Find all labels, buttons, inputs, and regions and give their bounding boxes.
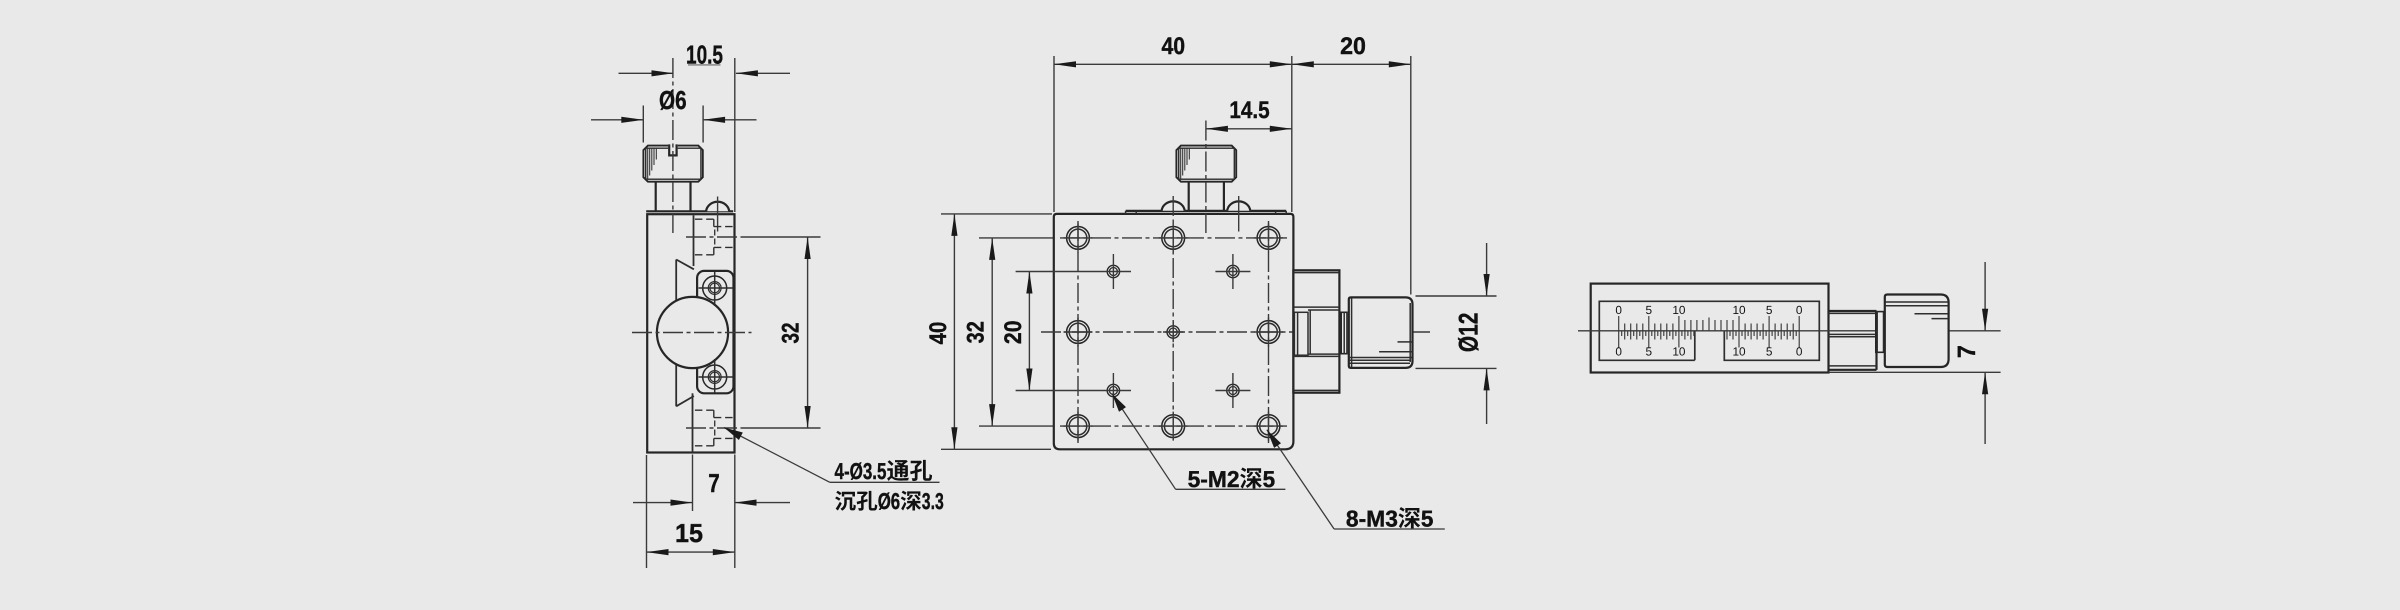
horizontal centerline left view [632,332,752,334]
micrometer collar [1341,312,1347,353]
bracket screw bottom [703,365,727,389]
8x M3 holes [1067,227,1090,250]
mount screw domes [1162,201,1185,210]
top knob stem [1188,182,1190,211]
svg-text:4-Ø3.5: 4-Ø3.5 [835,458,887,484]
svg-text:20: 20 [1340,33,1366,60]
leader 5-M2 [1112,394,1176,490]
dim 40 horizontal [1054,63,1292,65]
dim 32 left [686,236,741,238]
front body [1591,284,1829,373]
main plate 40x40 [1054,214,1294,449]
right view: front elevation with vernier scale [1591,284,1829,373]
svg-text:7: 7 [708,468,720,498]
stage boundary edge [693,215,695,266]
micrometer bracket block [1293,270,1339,392]
middle view: top plan of stage [1054,121,1294,450]
svg-text:10: 10 [1672,303,1686,317]
svg-text:0: 0 [1796,344,1803,358]
micrometer bracket front [1875,311,1877,370]
flexure spring top [676,260,694,270]
svg-text:5: 5 [1421,506,1434,532]
vernier ticks [1619,316,1800,348]
svg-text:5: 5 [1263,466,1276,492]
dim O6 [591,119,643,121]
svg-text:15: 15 [675,518,703,548]
svg-text:Ø6: Ø6 [878,488,901,514]
knob axis centerline [1205,121,1207,234]
dim O12 [1486,243,1488,296]
set-screw dome top right [706,202,729,211]
vertical centerline knob axis [672,58,674,233]
left body outline [647,214,734,452]
svg-text:32: 32 [963,321,990,343]
svg-text:10: 10 [1672,344,1686,358]
svg-text:Ø12: Ø12 [1454,313,1484,353]
leader 4-O3.5 counterbore note [724,428,830,483]
svg-text:Ø6: Ø6 [659,85,687,115]
knob end circle (O12 side view) [657,297,728,368]
svg-text:40: 40 [1162,33,1186,60]
leader 8-M3 [1267,430,1334,529]
svg-text:14.5: 14.5 [1229,97,1269,124]
svg-text:0: 0 [1796,303,1803,317]
top knob knurled [1176,146,1236,182]
top plate line [646,210,733,212]
dim 7 left [633,502,693,504]
micrometer knob O12 [1349,297,1413,368]
svg-text:5-M2: 5-M2 [1188,466,1240,492]
svg-text:10: 10 [1732,344,1746,358]
svg-text:20: 20 [1000,321,1027,345]
svg-text:0: 0 [1615,303,1622,317]
svg-text:32: 32 [778,323,805,344]
svg-text:5: 5 [1646,303,1653,317]
main axis centerline [1578,330,2001,332]
top knob mount plate [1126,210,1287,212]
left knob (knurled, slotted) [643,146,702,182]
hidden counterbore hole bottom [695,409,714,411]
svg-text:3.3: 3.3 [922,488,944,514]
dim 7 right [1984,262,1986,331]
svg-text:40: 40 [925,322,952,345]
knob front O12 [1885,295,1949,368]
dim 32 vertical [991,238,993,426]
bracket screw top [703,276,727,300]
label chen kong O6 shen 3.3 [835,491,856,511]
svg-text:5: 5 [1766,344,1773,358]
dim 10.5 [619,72,674,74]
left view: side elevation of stage [632,58,752,453]
flexure spring bottom [676,396,694,406]
svg-text:5: 5 [1766,303,1773,317]
svg-text:7: 7 [1953,345,1981,358]
clamp bracket [697,271,733,393]
center M2 hole [1167,326,1179,338]
dim 40 vertical [953,214,955,449]
knob stem [655,182,657,211]
hidden counterbore hole top [695,218,714,220]
svg-text:8-M3: 8-M3 [1346,506,1398,532]
4x M2 holes [1107,265,1119,277]
svg-text:10: 10 [1732,303,1746,317]
dim 20 vertical [1028,272,1030,391]
svg-text:5: 5 [1646,344,1653,358]
grid centerlines [1060,237,1287,239]
scale plate outline [1599,301,1819,360]
dim 14.5 [1206,128,1292,130]
dim 15 [647,551,735,553]
dim 20 horizontal [1292,63,1411,65]
collar front [1876,312,1885,353]
svg-text:0: 0 [1615,344,1622,358]
knurl lines left knob [645,149,647,179]
